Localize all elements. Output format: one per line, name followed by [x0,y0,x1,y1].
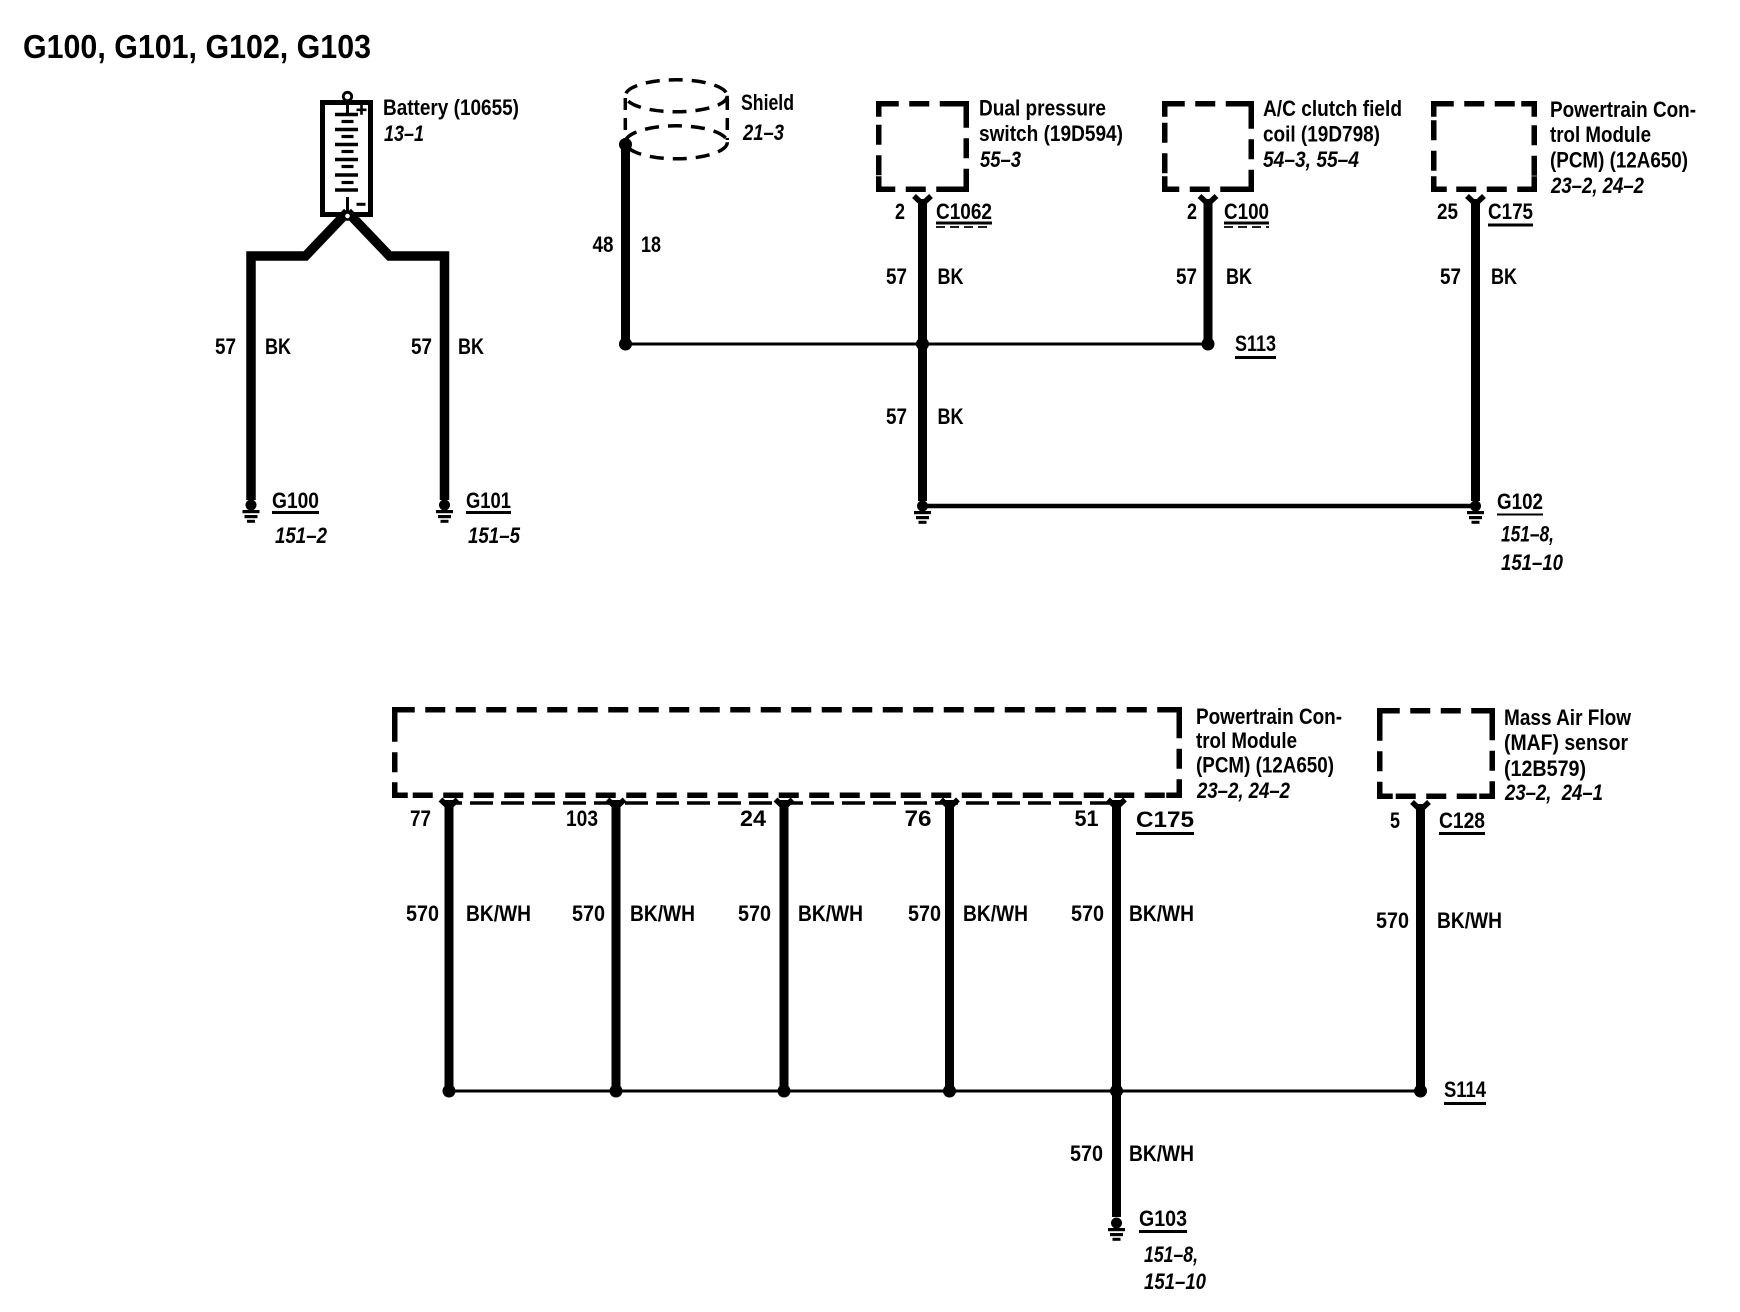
wire battery to G101 (57 BK) [348,212,445,500]
svg-text:(12B579): (12B579) [1504,756,1586,781]
svg-text:Battery (10655): Battery (10655) [383,95,519,120]
ground G100 [243,488,328,548]
svg-text:23–2, 24–2: 23–2, 24–2 [1196,778,1290,803]
svg-text:151–8,: 151–8, [1501,522,1554,547]
svg-text:57: 57 [1176,264,1197,289]
svg-text:151–10: 151–10 [1501,550,1564,575]
svg-text:BK: BK [1226,264,1252,289]
svg-text:25: 25 [1437,199,1458,224]
junction node S114 bus [1110,1085,1123,1098]
connector C128 arrow symbol (pin 5) [1412,802,1429,810]
ground label G102 151-8, 151-10 [1497,489,1564,575]
svg-text:BK/WH: BK/WH [466,901,531,926]
svg-text:BK/WH: BK/WH [1129,1141,1194,1166]
svg-text:57: 57 [886,264,907,289]
svg-text:C100: C100 [1224,199,1269,224]
wire label 570 BK/WH (MAF) [1376,908,1502,933]
svg-text:151–10: 151–10 [1144,1269,1207,1294]
junction node S114 at MAF wire [1414,1085,1427,1098]
wire S113 down to G102 (57 BK) [918,344,927,501]
junction node at dual pressure wire [916,338,929,351]
wire PCM pin 103 to S114 (570 BK/WH) [612,800,621,1091]
svg-text:S114: S114 [1444,1077,1487,1102]
svg-text:BK: BK [458,334,484,359]
connector C100 arrow symbol [1200,196,1217,204]
junction node S113 at A/C wire [1202,338,1215,351]
pin 2 and connector label C1062 [895,199,992,227]
wire label 570 BK/WH [406,901,531,926]
svg-text:Powertrain Con-: Powertrain Con- [1196,704,1342,729]
wire G102 horizontal link [923,504,1472,509]
wire A/C clutch field coil to S113 (57 BK) [1204,199,1213,344]
ground G101 [436,488,521,548]
wire label 57 BK [886,264,964,289]
svg-text:18: 18 [641,232,661,257]
wire PCM pin 76 to S114 (570 BK/WH) [945,800,954,1091]
wire label 48 18 [593,232,662,257]
svg-text:570: 570 [406,901,439,926]
svg-text:G100: G100 [272,488,319,513]
pin 25 and connector label C175 [1437,199,1533,227]
svg-text:BK: BK [1491,264,1517,289]
svg-text:Powertrain Con-: Powertrain Con- [1550,97,1696,122]
svg-text:BK: BK [265,334,291,359]
svg-text:151–2: 151–2 [275,523,328,548]
connector C175 arrow symbol (pin 76) [941,800,958,808]
svg-text:Dual pressure: Dual pressure [979,96,1106,121]
connector C175 arrow symbol (pin 77) [441,800,458,808]
wire label 57 BK [1440,264,1517,289]
svg-text:57: 57 [411,334,432,359]
wire dual pressure switch to S113 (57 BK) [918,199,927,344]
shield symbol (dashed cylinder) [625,80,727,159]
connector C175 arrow symbol (pin 25) [1467,196,1484,204]
connector C175 arrow symbol (pin 24) [776,800,793,808]
svg-text:switch (19D594): switch (19D594) [979,121,1123,146]
label Mass Air Flow (MAF) sensor (12B579) 23-2, 24-1 [1504,705,1632,805]
svg-text:Shield: Shield [741,90,794,115]
wire label 57 BK [1176,264,1252,289]
svg-text:57: 57 [886,404,907,429]
wire PCM pin 51 to S114 (570 BK/WH) [1112,800,1121,1091]
svg-text:(PCM) (12A650): (PCM) (12A650) [1196,753,1334,778]
svg-text:C1062: C1062 [936,199,992,224]
svg-text:55–3: 55–3 [980,147,1021,172]
battery negative terminal node [344,212,351,219]
connector C175 arrow symbol (pin 51) [1108,800,1125,808]
junction node S114 bus [610,1085,623,1098]
svg-text:2: 2 [895,199,905,224]
wire label 570 BK/WH [572,901,695,926]
svg-text:BK: BK [938,404,964,429]
battery label Battery (10655) 13-1 [383,95,519,146]
shield label Shield 21-3 [741,90,794,145]
component box: Powertrain Control Module PCM bottom [395,710,1180,796]
ground G103 [1108,1206,1207,1294]
svg-text:BK/WH: BK/WH [630,901,695,926]
svg-text:570: 570 [572,901,605,926]
svg-text:570: 570 [908,901,941,926]
wire battery to G100 (57 BK) [251,212,348,500]
svg-text:C175: C175 [1136,807,1194,832]
svg-text:570: 570 [738,901,771,926]
ground G102 right bolt [1467,501,1484,524]
wire label 570 BK/WH [908,901,1028,926]
connector C1062 arrow symbol [914,196,931,204]
splice label S113 [1235,331,1276,359]
junction node at shield wire [619,338,632,351]
wire label 570 BK/WH [1071,901,1194,926]
wire PCM pin 24 to S114 (570 BK/WH) [780,800,789,1091]
svg-text:570: 570 [1070,1141,1103,1166]
svg-text:151–8,: 151–8, [1144,1242,1198,1267]
svg-text:(PCM) (12A650): (PCM) (12A650) [1550,148,1688,173]
svg-text:23–2, 24–1: 23–2, 24–1 [1504,780,1603,805]
svg-text:57: 57 [1440,264,1461,289]
svg-text:77: 77 [410,806,431,831]
svg-text:5: 5 [1390,808,1400,833]
junction node S114 bus [943,1085,956,1098]
junction node at shield [619,138,632,151]
ground G102 left bolt [914,501,931,524]
svg-text:G101: G101 [466,488,511,513]
svg-text:BK/WH: BK/WH [798,901,863,926]
wire shield drain (48 18) [621,145,630,344]
svg-text:BK/WH: BK/WH [1129,901,1194,926]
wire label 570 BK/WH [1070,1141,1194,1166]
connector C175 arrow symbol (pin 103) [608,800,625,808]
svg-text:24: 24 [740,806,767,831]
svg-text:57: 57 [215,334,236,359]
svg-text:A/C clutch field: A/C clutch field [1263,96,1402,121]
svg-text:coil (19D798): coil (19D798) [1263,122,1380,147]
svg-text:C128: C128 [1439,808,1485,833]
svg-text:23–2, 24–2: 23–2, 24–2 [1550,173,1644,198]
wire label 57 BK [886,404,964,429]
svg-text:54–3, 55–4: 54–3, 55–4 [1263,147,1359,172]
pin 2 and connector label C100 [1187,199,1269,227]
label Powertrain Control Module (PCM) (12A650) 23-2, 24-2 (bottom) [1196,704,1342,803]
svg-text:Mass Air Flow: Mass Air Flow [1504,705,1632,730]
svg-text:trol Module: trol Module [1550,122,1651,147]
battery (10655) symbol [323,92,371,214]
svg-text:570: 570 [1071,901,1104,926]
component box: Mass Air Flow MAF sensor [1380,711,1493,797]
scan artifact doubled bottom edge [453,801,1112,805]
label Powertrain Control Module (PCM) (12A650) 23-2, 24-2 [1550,97,1696,198]
svg-text:trol Module: trol Module [1196,728,1297,753]
svg-text:BK: BK [938,264,964,289]
svg-text:C175: C175 [1488,199,1533,224]
wire splice bus S113 (horizontal) [626,343,1209,346]
svg-text:570: 570 [1376,908,1409,933]
junction node S114 bus [778,1085,791,1098]
wire label 57 BK (left battery wire) [215,334,291,359]
svg-text:48: 48 [593,232,614,257]
wire label 57 BK (right battery wire) [411,334,484,359]
svg-text:103: 103 [566,806,598,831]
svg-text:G100, G101, G102, G103: G100, G101, G102, G103 [23,28,371,65]
wire S114 down to G103 (570 BK/WH) [1112,1091,1121,1217]
svg-text:2: 2 [1187,199,1197,224]
svg-text:BK/WH: BK/WH [1437,908,1502,933]
svg-text:51: 51 [1075,806,1099,831]
wire MAF pin5 to S114 (570 BK/WH) [1416,804,1425,1091]
pin 5 and connector label C128 [1390,808,1485,835]
wire PCM pin 77 to S114 (570 BK/WH) [445,800,454,1091]
label Dual pressure switch (19D594) 55-3 [979,96,1123,173]
svg-text:76: 76 [905,806,932,831]
svg-text:13–1: 13–1 [384,121,424,146]
component box: Powertrain Control Module PCM top [1434,104,1535,190]
wire PCM pin25 to G102 (57 BK) [1471,199,1480,501]
wire splice bus S114 (horizontal) [449,1090,1421,1093]
junction node S114 bus [443,1085,456,1098]
label A/C clutch field coil (19D798) 54-3, 55-4 [1263,96,1402,172]
svg-text:G103: G103 [1139,1206,1187,1231]
svg-text:21–3: 21–3 [742,120,784,145]
splice label S114 [1444,1077,1487,1105]
svg-text:G102: G102 [1497,489,1543,514]
svg-text:(MAF) sensor: (MAF) sensor [1504,730,1628,755]
connector label C175 (bottom) [1136,807,1194,835]
component box: A/C clutch field coil (19D798) [1165,104,1252,190]
svg-text:S113: S113 [1235,331,1276,356]
component box: dual pressure switch (19D594) [879,104,967,190]
svg-text:151–5: 151–5 [468,523,521,548]
svg-text:BK/WH: BK/WH [963,901,1028,926]
wire label 570 BK/WH [738,901,863,926]
